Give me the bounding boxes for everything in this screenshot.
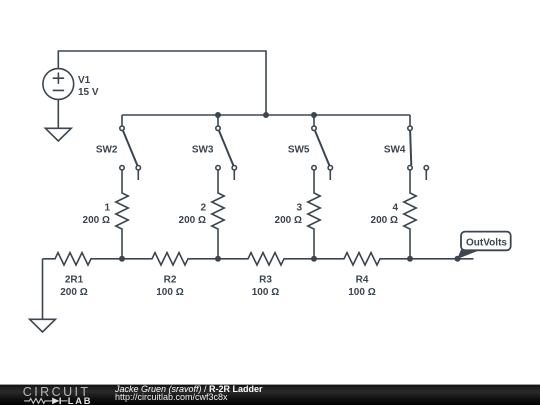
svg-text:LAB: LAB <box>68 395 92 405</box>
svg-text:1: 1 <box>104 202 110 213</box>
svg-text:4: 4 <box>392 202 398 213</box>
svg-text:100 Ω: 100 Ω <box>348 287 375 298</box>
svg-text:R2: R2 <box>164 275 177 286</box>
svg-text:200 Ω: 200 Ω <box>83 215 110 226</box>
svg-text:200 Ω: 200 Ω <box>275 215 302 226</box>
svg-text:200 Ω: 200 Ω <box>371 215 398 226</box>
svg-text:R4: R4 <box>356 275 369 286</box>
svg-text:SW4: SW4 <box>384 145 406 156</box>
svg-text:2R1: 2R1 <box>65 275 84 286</box>
svg-text:2: 2 <box>200 202 206 213</box>
svg-text:200 Ω: 200 Ω <box>60 287 87 298</box>
svg-text:SW5: SW5 <box>288 145 310 156</box>
svg-text:100 Ω: 100 Ω <box>252 287 279 298</box>
svg-text:V1: V1 <box>78 75 91 86</box>
svg-text:SW3: SW3 <box>192 145 214 156</box>
svg-text:15 V: 15 V <box>78 87 99 98</box>
svg-text:http://circuitlab.com/cwf3c8x: http://circuitlab.com/cwf3c8x <box>115 392 228 402</box>
svg-text:SW2: SW2 <box>96 145 118 156</box>
svg-text:100 Ω: 100 Ω <box>156 287 183 298</box>
svg-text:200 Ω: 200 Ω <box>179 215 206 226</box>
svg-text:R3: R3 <box>259 275 272 286</box>
svg-text:3: 3 <box>296 202 302 213</box>
svg-text:OutVolts: OutVolts <box>466 238 507 249</box>
